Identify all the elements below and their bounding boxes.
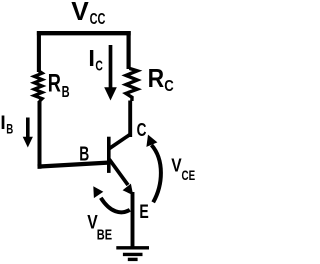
arrow IB (base current, pointing down) bbox=[26, 118, 30, 139]
svg-text:R: R bbox=[48, 70, 61, 98]
svg-text:C: C bbox=[137, 120, 147, 140]
wire: left branch drop from VCC rail to RB bbox=[37, 31, 41, 72]
transistor Q1: base bar bbox=[107, 137, 111, 173]
arrow VBE (curved, pointing up-left toward base) bbox=[101, 198, 130, 213]
wire: collector vertical wire below RC bbox=[128, 101, 132, 138]
resistor RB (zigzag body) bbox=[34, 71, 42, 102]
ground symbol: top bar bbox=[116, 246, 149, 249]
wire: left branch below RB down to base corner bbox=[38, 101, 42, 169]
svg-text:E: E bbox=[139, 202, 148, 223]
svg-text:C: C bbox=[95, 58, 103, 75]
transistor Q1: emitter diagonal lead with arrow bbox=[109, 159, 128, 185]
wire: emitter vertical wire down to ground bbox=[131, 192, 135, 248]
transistor Q1: collector diagonal lead bbox=[109, 135, 130, 149]
wire: base horizontal wire to transistor bbox=[38, 163, 109, 167]
resistor RC (zigzag body) bbox=[126, 68, 137, 101]
svg-text:B: B bbox=[6, 120, 13, 136]
svg-text:CC: CC bbox=[90, 11, 106, 28]
svg-text:B: B bbox=[79, 144, 89, 166]
svg-text:C: C bbox=[164, 78, 174, 95]
svg-text:B: B bbox=[62, 84, 70, 101]
svg-text:BE: BE bbox=[97, 226, 112, 243]
svg-text:V: V bbox=[71, 0, 89, 26]
ground symbol: bottom bar bbox=[128, 258, 138, 261]
svg-text:CE: CE bbox=[182, 167, 196, 183]
wire: VCC top rail bbox=[37, 31, 131, 35]
svg-text:V: V bbox=[171, 155, 182, 176]
svg-text:I: I bbox=[0, 113, 5, 134]
ground symbol: middle bar bbox=[123, 253, 143, 256]
wire: right branch drop from VCC rail to RC bbox=[127, 31, 131, 69]
arrow IC (collector current, pointing down) bbox=[109, 45, 113, 89]
svg-text:I: I bbox=[88, 45, 95, 71]
arrow VCE (curved, pointing up toward collector) bbox=[152, 145, 161, 202]
svg-text:R: R bbox=[148, 63, 165, 93]
